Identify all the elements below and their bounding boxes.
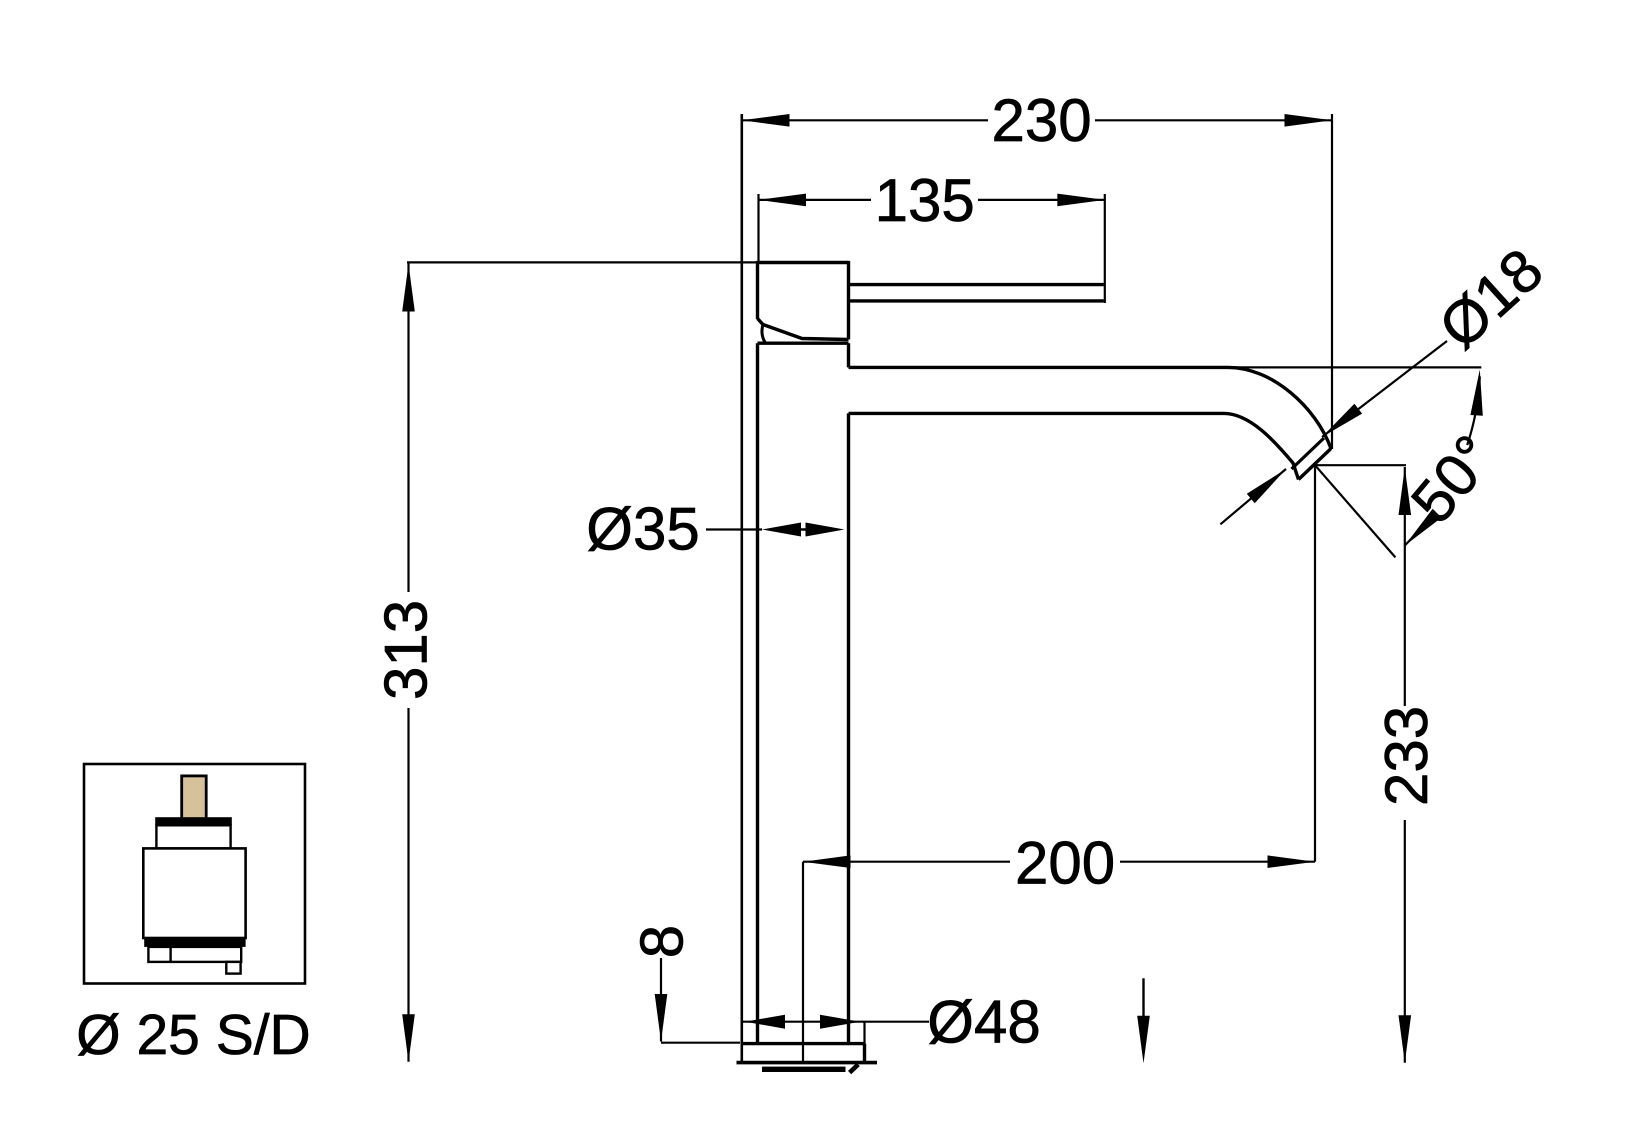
spout top edge [849,367,1332,448]
dim 8 down arrowhead [655,994,668,1042]
dim 8 horizontal connector line [661,1042,740,1044]
base shadow bar [762,1067,846,1072]
dim 230 right extension line [1331,114,1333,449]
dim 135 left extension line [757,194,759,263]
handle heel arc [762,325,766,344]
dim 230 left arrowhead [742,114,790,127]
dim 200 left extension line [802,862,804,1063]
dim 200 right arrowhead [1268,855,1316,868]
dim Ø48 left arrowhead [745,1015,785,1029]
svg-text:135: 135 [875,167,975,234]
dim Ø48 right extension line [863,1022,865,1044]
downward reference arrow [1142,978,1144,1020]
cartridge stem [182,776,207,820]
base flange right edge [863,1044,866,1063]
cartridge bottom black band [144,938,245,947]
cartridge bottom section divider [169,947,171,962]
dim Ø18 upper arrowhead [1322,404,1362,437]
dim 233 line upper segment [1404,467,1406,706]
svg-text:233: 233 [1373,706,1440,806]
cartridge main body [143,848,245,938]
dim 135 left arrowhead [759,194,807,207]
neck right edge [847,343,850,367]
dim Ø35 arrow shaft [793,528,813,530]
dim 200 right extension line [1314,465,1316,862]
handle bottom slanted edge [758,319,849,340]
base flange top edge [742,1042,865,1045]
50° arc top arrowhead [1470,370,1482,416]
dim 313 line lower segment [407,708,409,1062]
dim 313 line upper segment [407,263,409,592]
inset box [84,764,305,984]
dim 233 top reference line [1315,464,1406,466]
dim 230 right arrowhead [1285,114,1333,127]
dim Ø35 leader line [706,528,762,530]
handle block left edge [756,261,759,319]
dim 230 line [742,119,1332,121]
cartridge bottom-right tab [226,962,240,974]
dim 313 top extension line [407,261,758,263]
svg-text:230: 230 [991,87,1091,154]
dim 135 right arrowhead [1057,194,1105,207]
dim 135 line [759,199,1105,201]
svg-text:Ø35: Ø35 [586,495,699,562]
handle block right edge [847,261,850,340]
dim 233 line lower segment [1404,820,1406,1063]
spout outlet face outer line [1299,449,1332,480]
dim 313 down arrowhead [402,1014,415,1062]
dim Ø48 right arrowhead [820,1015,860,1029]
dim 233 up arrowhead [1399,468,1412,516]
cartridge upper body [156,825,230,848]
50° slanted reference line [1315,465,1395,557]
svg-text:Ø 25 S/D: Ø 25 S/D [76,1003,310,1067]
dim 200 line [803,861,1315,863]
spout bottom edge [849,413,1299,479]
dim 8 leader vertical line [660,958,662,1042]
dim 200 left arrowhead [803,855,851,868]
dim 233 down arrowhead [1399,1015,1412,1063]
collar line [758,342,849,345]
dim 313 up arrowhead [402,264,415,312]
50° arc bottom arrowhead [1405,509,1442,546]
text backing rects [988,92,1095,148]
svg-text:Ø48: Ø48 [927,989,1040,1056]
cartridge bottom section [148,947,241,962]
svg-text:313: 313 [372,600,439,700]
svg-text:8: 8 [628,925,695,958]
50° horizontal reference line [1222,366,1481,368]
spout outlet face inner line [1292,438,1325,469]
handle block top edge [758,261,849,264]
dim Ø18 lower arrowhead [1247,469,1286,503]
dim Ø48 arrow line [742,1021,930,1023]
svg-text:200: 200 [1015,830,1115,897]
dim Ø35 right arrowhead [806,523,845,537]
lever bar bottom edge [849,299,1104,302]
body right edge [847,413,850,1043]
lever bar top edge [849,283,1104,286]
dim 135 right extension line [1104,194,1106,303]
dim Ø35 left arrowhead [762,523,801,537]
dim 230 left extension line [740,114,743,1063]
dim Ø18 lower arrow line [1220,469,1286,524]
body left edge [756,343,759,1043]
cartridge top black band [155,817,232,825]
50° dimension arc lower segment [1405,515,1431,546]
base shadow diagonal tick [850,1064,859,1072]
dim Ø18 leader line [1322,341,1447,437]
50° dimension arc upper segment [1467,376,1480,445]
base bottom line [737,1061,878,1065]
